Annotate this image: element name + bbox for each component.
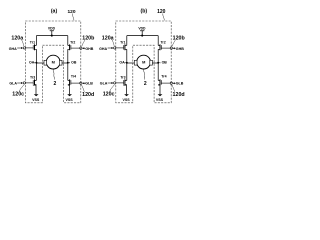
leader from 120a to GHA terminal (circuit b) — [112, 40, 114, 46]
svg-text:Tr1: Tr1 — [120, 41, 125, 45]
svg-text:GLB: GLB — [176, 82, 184, 86]
wire: Tr2 gate to GHB terminal (circuit b) — [161, 47, 170, 49]
transistor Tr2 (circuit b) — [159, 44, 161, 50]
svg-text:2: 2 — [54, 81, 57, 87]
svg-text:Tr1: Tr1 — [30, 41, 35, 45]
wire: Tr3 gate to GLA terminal (circuit b) — [116, 82, 124, 84]
leader from 120a to GHA terminal (circuit a) — [22, 40, 24, 46]
input arrow GHB (circuit b) — [174, 47, 176, 49]
wire: OA to motor left brush (circuit a) — [36, 62, 44, 64]
svg-text:GHB: GHB — [85, 47, 93, 51]
leader from 120b to GHB terminal (circuit a) — [82, 40, 85, 46]
svg-text:M: M — [142, 60, 145, 65]
terminal circle GHA (circuit b) — [114, 47, 116, 49]
transistor Tr4 (circuit a) — [69, 79, 71, 85]
input arrow GLA (circuit b) — [108, 82, 112, 84]
svg-text:120a: 120a — [11, 36, 23, 42]
svg-text:GLA: GLA — [9, 82, 17, 86]
wire: Tr1 gate to GHA terminal (circuit a) — [25, 47, 33, 49]
svg-text:Tr2: Tr2 — [70, 41, 75, 45]
svg-text:VDD: VDD — [138, 26, 146, 30]
node OA junction dot (circuit b) — [126, 62, 128, 64]
svg-text:OB: OB — [162, 61, 168, 65]
svg-text:120d: 120d — [173, 92, 185, 98]
terminal circle GHA (circuit a) — [23, 47, 25, 49]
node OA junction dot (circuit a) — [35, 62, 37, 64]
wire: Tr3 source jog down to VSS (circuit b) — [123, 85, 126, 94]
leader from 120b to GHB terminal (circuit b) — [172, 40, 175, 46]
wire: Tr2 gate to GHB terminal (circuit a) — [71, 47, 80, 49]
transistor Tr3 (circuit a) — [34, 79, 36, 85]
input arrow GLA (circuit a) — [17, 82, 21, 84]
VSS arrow symbol right (circuit a) — [67, 94, 72, 96]
svg-text:Tr3: Tr3 — [120, 75, 125, 79]
wire: motor right brush to OB (circuit a) — [62, 62, 68, 64]
svg-text:120d: 120d — [82, 92, 94, 98]
motor right brush (circuit b) — [150, 60, 153, 65]
svg-text:VSS: VSS — [65, 98, 73, 102]
VSS arrow symbol left (circuit b) — [124, 94, 129, 96]
terminal circle GLB (circuit b) — [170, 82, 172, 84]
svg-text:VDD: VDD — [48, 26, 56, 30]
svg-text:GLB: GLB — [85, 82, 93, 86]
wire: left branch Tr1 source to Tr3 drain (circuit a) — [35, 49, 37, 80]
VDD supply T-bar symbol (circuit b) — [140, 31, 144, 36]
svg-text:120b: 120b — [82, 36, 95, 42]
transistor Tr1 (circuit b) — [124, 44, 126, 50]
svg-text:VSS: VSS — [122, 98, 130, 102]
leader from 120 to box (circuit a) — [72, 14, 74, 21]
wire: Tr3 source jog down to VSS (circuit a) — [33, 85, 36, 94]
VDD junction dot (circuit a) — [51, 35, 53, 37]
transistor Tr4 (circuit b) — [159, 79, 161, 85]
input arrow GHA (circuit b) — [108, 47, 112, 49]
wire: top VDD rail (circuit b) — [127, 35, 158, 37]
svg-text:Tr4: Tr4 — [161, 75, 166, 79]
transistor Tr2 (circuit a) — [69, 44, 71, 50]
squiggle leader motor to label 2 (circuit a) — [53, 69, 54, 79]
leader from 120d to GLB terminal (circuit b) — [172, 85, 175, 92]
wire: motor right brush to OB (circuit b) — [152, 62, 158, 64]
terminal circle GHB (circuit a) — [80, 47, 82, 49]
dashed boundary box 120 with motor notch (circuit a) — [25, 21, 80, 103]
motor right brush (circuit a) — [59, 60, 62, 65]
svg-text:120a: 120a — [102, 36, 114, 42]
node OB junction dot (circuit b) — [157, 62, 159, 64]
svg-text:120: 120 — [157, 9, 166, 15]
terminal circle GLA (circuit b) — [114, 82, 116, 84]
svg-text:VSS: VSS — [32, 98, 40, 102]
wire: Tr4 source jog down to VSS (circuit b) — [158, 85, 160, 94]
svg-text:OA: OA — [119, 61, 125, 65]
VSS arrow symbol left (circuit a) — [34, 94, 39, 96]
wire: top VDD rail (circuit a) — [36, 35, 67, 37]
terminal circle GHB (circuit b) — [170, 47, 172, 49]
svg-text:120: 120 — [67, 9, 75, 15]
wire: Tr1 gate to GHA terminal (circuit b) — [116, 47, 124, 49]
svg-text:120b: 120b — [173, 36, 186, 42]
node OB junction dot (circuit a) — [67, 62, 69, 64]
svg-text:120c: 120c — [103, 92, 115, 98]
wire: Tr4 source jog down to VSS (circuit a) — [68, 85, 70, 94]
wire: right drain riser (circuit b) — [157, 36, 159, 46]
dashed boundary box 120 with motor notch (circuit b) — [116, 21, 171, 103]
wire: OA to motor left brush (circuit b) — [127, 62, 135, 64]
input arrow GLB (circuit b) — [174, 82, 176, 84]
transistor Tr3 (circuit b) — [124, 79, 126, 85]
input arrow GHB (circuit a) — [84, 47, 86, 49]
leader from 120 to box (circuit b) — [163, 14, 165, 21]
svg-text:(a): (a) — [51, 9, 58, 15]
wire: right branch Tr2 source to Tr4 drain (circuit b) — [157, 49, 159, 80]
svg-text:GLA: GLA — [100, 82, 108, 86]
leader from 120c to GLA terminal (circuit b) — [110, 85, 115, 92]
svg-text:OA: OA — [29, 61, 35, 65]
VDD supply T-bar symbol (circuit a) — [50, 31, 54, 36]
svg-text:VSS: VSS — [156, 98, 164, 102]
motor M circle (circuit a) — [46, 55, 60, 69]
svg-text:Tr2: Tr2 — [160, 41, 165, 45]
terminal circle GLB (circuit a) — [80, 82, 82, 84]
leader from 120c to GLA terminal (circuit a) — [19, 85, 24, 92]
svg-text:GHA: GHA — [99, 47, 107, 51]
wire: right branch Tr2 source to Tr4 drain (circuit a) — [67, 49, 69, 80]
input arrow GLB (circuit a) — [84, 82, 86, 84]
svg-text:(b): (b) — [140, 9, 147, 15]
wire: Tr4 gate to GLB terminal (circuit a) — [71, 82, 80, 84]
wire: Tr4 gate to GLB terminal (circuit b) — [161, 82, 170, 84]
svg-text:OB: OB — [71, 61, 77, 65]
VDD junction dot (circuit b) — [141, 35, 143, 37]
svg-text:Tr4: Tr4 — [71, 75, 76, 79]
svg-text:Tr3: Tr3 — [30, 75, 35, 79]
svg-text:120c: 120c — [12, 92, 24, 98]
svg-text:M: M — [52, 60, 55, 65]
wire: left drain riser (circuit b) — [126, 36, 128, 46]
transistor Tr1 (circuit a) — [34, 44, 36, 50]
wire: right drain riser (circuit a) — [67, 36, 69, 46]
wire: Tr3 gate to GLA terminal (circuit a) — [25, 82, 33, 84]
svg-text:GHB: GHB — [176, 47, 184, 51]
motor left brush (circuit b) — [134, 60, 137, 65]
svg-text:2: 2 — [144, 81, 147, 87]
input arrow GHA (circuit a) — [17, 47, 21, 49]
terminal circle GLA (circuit a) — [23, 82, 25, 84]
wire: left branch Tr1 source to Tr3 drain (circuit b) — [126, 49, 128, 80]
motor M circle (circuit b) — [137, 55, 151, 69]
svg-text:GHA: GHA — [9, 47, 17, 51]
VSS arrow symbol right (circuit b) — [158, 94, 163, 96]
wire: left drain riser (circuit a) — [35, 36, 37, 46]
leader from 120d to GLB terminal (circuit a) — [82, 85, 85, 92]
motor left brush (circuit a) — [44, 60, 47, 65]
squiggle leader motor to label 2 (circuit b) — [144, 69, 145, 79]
